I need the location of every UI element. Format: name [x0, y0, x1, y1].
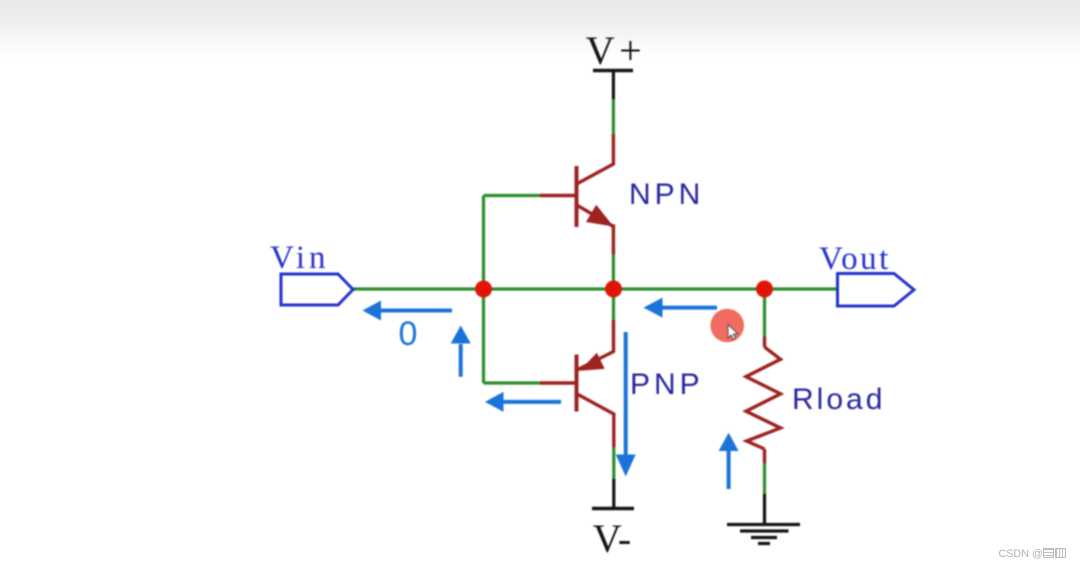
wire red NPN base lead — [540, 194, 575, 197]
transistor Q1 NPN base bar — [575, 166, 579, 227]
annotation arrow current up through Rload — [719, 433, 739, 489]
transistor Q1 NPN collector lead — [578, 135, 614, 184]
mouse cursor pointer — [728, 325, 738, 340]
transistor Q1 NPN emitter arrowhead — [586, 205, 614, 227]
annotation arrow current left under Vin — [363, 301, 453, 321]
power symbol V+ bar — [593, 69, 633, 73]
ground bar 4 — [758, 542, 770, 545]
transistor Q2 PNP collector lead — [578, 395, 614, 448]
resistor Rload bottom lead — [763, 449, 766, 463]
wire green PNP base lead — [484, 381, 541, 384]
wire red PNP base lead — [540, 381, 575, 384]
transistor Q1 NPN emitter lead — [578, 206, 614, 255]
ground bar 1 — [727, 523, 800, 526]
wire black to V- bar — [612, 479, 615, 509]
wire main horizontal net — [353, 287, 837, 290]
wire green node to Rload — [763, 293, 766, 337]
wire green PNP collector to V- — [612, 447, 615, 479]
svg-text:PNP: PNP — [630, 368, 704, 401]
transistor Q2 PNP emitter arrowhead — [580, 353, 605, 371]
svg-text:V+: V+ — [586, 28, 646, 73]
annotation arrow current left on output net — [644, 298, 718, 318]
wire green V+ to NPN collector — [612, 99, 615, 135]
transistor Q2 PNP emitter lead — [578, 320, 614, 370]
port Vout outline — [838, 274, 915, 307]
node junction dot center — [605, 281, 622, 298]
ground bar 3 — [751, 536, 777, 539]
svg-text:0: 0 — [399, 315, 418, 353]
watermark CSDN — [998, 548, 1066, 560]
node junction dot left — [475, 281, 492, 298]
transistor Q2 PNP base bar — [575, 355, 579, 412]
annotation arrow current left under PNP base — [485, 392, 561, 412]
ground bar 2 — [740, 529, 789, 532]
cursor highlight circle — [710, 309, 744, 343]
wire green NPN base lead — [484, 194, 541, 197]
svg-text:Rload: Rload — [792, 383, 885, 416]
wire black to ground — [763, 494, 766, 524]
wire green node to PNP emitter — [612, 293, 615, 320]
annotation arrow current up left branch — [451, 326, 471, 377]
power symbol V- bar — [592, 507, 634, 511]
svg-text:NPN: NPN — [629, 178, 704, 211]
resistor Rload top lead — [763, 337, 766, 348]
port Vin outline — [281, 274, 353, 305]
svg-text:Vout: Vout — [819, 241, 891, 277]
resistor Rload body — [746, 347, 781, 449]
wire green NPN emitter to node — [612, 255, 615, 286]
node junction dot right — [756, 281, 773, 298]
wire black from V+ bar — [612, 71, 615, 100]
svg-text:Vin: Vin — [270, 240, 330, 276]
annotation arrow current down through PNP — [616, 332, 636, 477]
wire left branch vertical — [482, 196, 485, 384]
wire green Rload to ground — [763, 463, 766, 494]
svg-text:V-: V- — [593, 516, 632, 561]
